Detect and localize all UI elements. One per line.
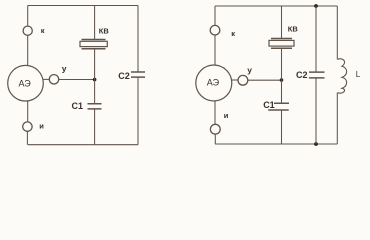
wire C2 branch upper <box>315 6 317 72</box>
wire AE to u terminal <box>43 78 49 80</box>
terminal circle k <box>23 26 32 35</box>
svg-text:C1: C1 <box>72 101 84 111</box>
wire u to node <box>59 79 95 81</box>
capacitor C1 plates <box>88 104 102 109</box>
svg-text:КВ: КВ <box>99 27 110 36</box>
op-amp/active element U1 (АЭ) circle <box>8 65 44 101</box>
svg-text:C2: C2 <box>118 71 130 81</box>
terminal circle u <box>238 75 248 85</box>
svg-text:КВ: КВ <box>288 24 299 33</box>
node junction dot <box>280 78 284 82</box>
node dot top (C2 tee) <box>314 4 318 8</box>
wire crystal to node <box>281 48 283 80</box>
wire left upper (top rail to terminal k) <box>27 6 29 27</box>
crystal KV plates <box>82 40 106 49</box>
terminal circle i <box>23 122 32 131</box>
svg-text:L: L <box>356 70 361 79</box>
svg-text:АЭ: АЭ <box>19 78 32 88</box>
svg-text:и: и <box>39 122 44 131</box>
wire crystal to node <box>94 49 96 80</box>
wire right rail upper <box>336 6 338 59</box>
svg-text:к: к <box>231 29 235 38</box>
op-amp/active element U2 (АЭ) circle <box>196 65 232 101</box>
capacitor C1 plates <box>268 103 289 110</box>
node dot bottom (C2 tee) <box>314 142 318 146</box>
svg-text:у: у <box>247 65 252 75</box>
crystal KV plates <box>271 39 292 49</box>
capacitor C2 plates <box>309 72 325 78</box>
svg-text:АЭ: АЭ <box>207 77 220 87</box>
wire bottom rail <box>28 144 138 146</box>
wire AE to u terminal <box>232 79 238 81</box>
svg-text:C1: C1 <box>263 100 275 110</box>
crystal KV body rect <box>269 40 294 46</box>
terminal circle k <box>210 25 220 35</box>
wire node to C1 <box>94 80 96 104</box>
wire right rail lower <box>137 77 139 145</box>
node junction dot <box>93 78 97 82</box>
wire top rail to crystal <box>281 6 283 39</box>
wire C2 branch lower <box>315 78 317 144</box>
wire C1 to bottom rail <box>281 110 283 144</box>
capacitor C2 plates <box>131 72 145 77</box>
svg-text:C2: C2 <box>296 70 308 80</box>
wire i to bottom rail <box>214 134 216 144</box>
inductor L coil <box>337 59 346 93</box>
wire top rail to crystal <box>94 6 96 40</box>
terminal circle i <box>210 124 220 134</box>
wire AE bottom to terminal i <box>214 101 216 124</box>
wire i to bottom rail <box>26 131 28 144</box>
wire left upper (top rail to terminal k) <box>214 6 216 26</box>
wire k to AE top <box>27 35 29 65</box>
wire node to C1 <box>281 80 283 103</box>
wire top rail <box>28 5 138 7</box>
svg-text:у: у <box>62 63 67 73</box>
wire top rail <box>215 5 337 7</box>
crystal KV body rect <box>80 41 107 46</box>
wire k to AE top <box>214 35 216 65</box>
wire bottom rail <box>215 143 337 145</box>
wire right rail lower <box>336 93 338 144</box>
wire right rail upper <box>137 6 139 73</box>
svg-text:и: и <box>224 111 229 120</box>
wire AE bottom to terminal i <box>27 101 29 122</box>
terminal circle u <box>49 75 58 84</box>
wire C1 to bottom rail <box>94 109 96 145</box>
svg-text:к: к <box>41 26 45 35</box>
wire u to node <box>248 79 282 81</box>
